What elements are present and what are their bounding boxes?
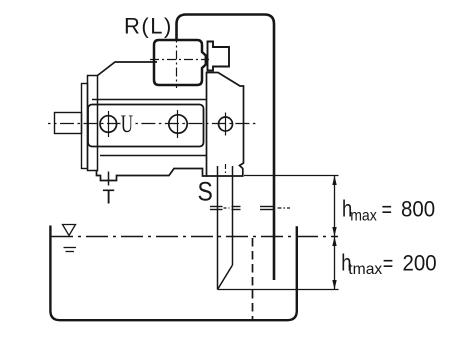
pump main centerline [48,123,121,125]
drain flange centerline dashes [278,207,291,209]
T port tick [108,172,110,186]
end cap [207,73,244,177]
S flange centerline dashes [224,207,232,209]
min level dashed line [252,238,254,320]
pump shaft [55,113,82,134]
svg-text:max: max [350,207,377,225]
suction pipe angled cut [218,265,233,290]
body internal lower line [100,155,207,157]
extension line pump bottom [244,175,339,177]
svg-text:tmax: tmax [348,261,382,278]
svg-text:=: = [383,252,394,276]
block vertical centerline [176,34,178,89]
circle center vertical tick [177,110,179,138]
mounting flange plate [82,84,88,169]
dimension line vertical [334,176,336,290]
port circle U [100,116,117,133]
suction pipe centerline tick [225,164,227,176]
svg-text:=: = [382,198,393,222]
fluid level triangle [63,225,76,236]
svg-text:U: U [121,110,133,138]
circle U vertical tick [108,111,110,137]
extension line pipe bottom [218,289,339,291]
fluid level equals mark [64,247,77,249]
body bottom outline with T boss [97,169,207,181]
suction pipe S left wall [217,166,219,290]
svg-text:T: T [103,187,115,209]
body internal upper line [92,99,207,101]
dimension arrowheads [332,176,336,290]
tank outline [50,226,296,321]
body top-left chamfer and top edge [98,62,158,76]
fluid level centerline [51,236,338,238]
svg-text:R(L): R(L) [124,13,173,38]
suction pipe S right wall [232,166,234,265]
housing rim [88,76,98,171]
drain pipe flange joint [260,207,275,210]
port plate band [88,105,204,147]
control block R(L) [154,40,206,85]
block horizontal centerline [150,59,209,61]
drain pipe R(L) to tank [177,15,275,281]
port circle right [219,117,233,131]
svg-text:S: S [198,177,213,207]
svg-text:200: 200 [403,251,437,276]
S pipe flange joint [210,207,241,210]
circle right vertical tick [225,113,227,136]
side plug fitting [208,42,230,71]
svg-text:800: 800 [401,197,435,222]
port circle center [169,115,187,133]
